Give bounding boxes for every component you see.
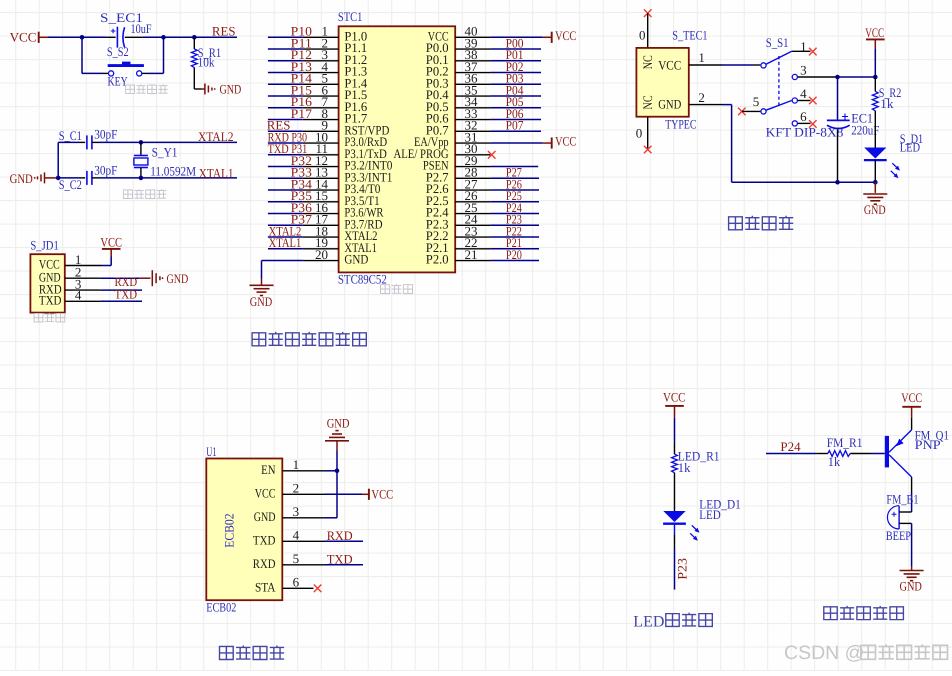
svg-text:VCC: VCC bbox=[901, 390, 922, 405]
svg-text:VCC: VCC bbox=[555, 28, 576, 43]
svg-text:20: 20 bbox=[315, 247, 328, 262]
svg-text:VCC: VCC bbox=[865, 25, 884, 40]
svg-text:VCC: VCC bbox=[10, 30, 37, 45]
svg-text:CSDN @: CSDN @ bbox=[784, 642, 864, 664]
svg-text:FM_R1: FM_R1 bbox=[827, 435, 863, 450]
svg-text:TXD: TXD bbox=[115, 287, 138, 302]
svg-text:ECB02: ECB02 bbox=[221, 513, 236, 547]
svg-text:GND: GND bbox=[10, 171, 33, 186]
svg-text:S_S2: S_S2 bbox=[107, 44, 129, 59]
svg-text:RES: RES bbox=[212, 23, 236, 38]
svg-text:1k: 1k bbox=[828, 454, 841, 469]
svg-text:NC: NC bbox=[640, 95, 655, 109]
svg-text:GND: GND bbox=[658, 97, 681, 112]
svg-text:4: 4 bbox=[800, 86, 807, 101]
svg-text:3: 3 bbox=[800, 63, 807, 78]
svg-text:1: 1 bbox=[800, 39, 807, 54]
svg-text:RXD: RXD bbox=[327, 528, 353, 543]
svg-text:TXD: TXD bbox=[39, 293, 62, 308]
svg-text:30pF: 30pF bbox=[94, 127, 117, 142]
svg-text:TXD: TXD bbox=[253, 533, 276, 548]
svg-text:5: 5 bbox=[753, 94, 760, 109]
svg-text:10k: 10k bbox=[198, 55, 215, 70]
svg-text:1k: 1k bbox=[880, 96, 894, 111]
svg-text:4: 4 bbox=[293, 528, 300, 543]
svg-text:S_S1: S_S1 bbox=[766, 35, 789, 50]
svg-text:FM_B1: FM_B1 bbox=[886, 492, 918, 507]
svg-text:3: 3 bbox=[293, 504, 300, 519]
svg-text:6: 6 bbox=[293, 575, 300, 590]
svg-text:ECB02: ECB02 bbox=[206, 599, 236, 614]
svg-text:30pF: 30pF bbox=[94, 162, 117, 177]
svg-text:BEEP: BEEP bbox=[886, 528, 911, 543]
svg-text:GND: GND bbox=[864, 202, 886, 217]
svg-text:PNP: PNP bbox=[915, 437, 941, 452]
svg-text:0: 0 bbox=[636, 125, 643, 140]
svg-text:XTAL1: XTAL1 bbox=[269, 235, 302, 250]
svg-text:2: 2 bbox=[698, 90, 705, 105]
svg-text:EN: EN bbox=[261, 462, 276, 477]
svg-text:P23: P23 bbox=[674, 558, 689, 580]
svg-text:LED: LED bbox=[900, 140, 920, 155]
svg-text:10uF: 10uF bbox=[131, 21, 152, 36]
svg-text:S_C1: S_C1 bbox=[59, 128, 82, 143]
svg-text:GND: GND bbox=[327, 416, 350, 431]
svg-text:S_JD1: S_JD1 bbox=[30, 237, 58, 252]
svg-text:KEY: KEY bbox=[108, 74, 129, 89]
svg-text:RXD: RXD bbox=[253, 556, 276, 571]
svg-text:1: 1 bbox=[698, 50, 705, 65]
svg-text:XTAL1: XTAL1 bbox=[199, 166, 234, 181]
svg-text:GND: GND bbox=[344, 252, 368, 267]
svg-text:5: 5 bbox=[293, 551, 300, 566]
svg-text:GND: GND bbox=[254, 509, 276, 524]
svg-text:0: 0 bbox=[639, 27, 646, 42]
svg-text:TXD: TXD bbox=[327, 552, 353, 567]
svg-text:VCC: VCC bbox=[658, 57, 681, 72]
svg-text:VCC: VCC bbox=[555, 134, 576, 149]
svg-text:1k: 1k bbox=[678, 460, 691, 475]
svg-text:GND: GND bbox=[167, 271, 189, 286]
svg-text:21: 21 bbox=[465, 247, 478, 262]
svg-text:6: 6 bbox=[800, 109, 807, 124]
svg-text:P2.0: P2.0 bbox=[426, 252, 449, 267]
svg-text:2: 2 bbox=[293, 481, 300, 496]
svg-text:STC89C52: STC89C52 bbox=[338, 271, 387, 286]
svg-text:P24: P24 bbox=[780, 439, 801, 454]
svg-text:VCC: VCC bbox=[371, 487, 393, 502]
svg-text:LED: LED bbox=[699, 507, 721, 522]
svg-text:U1: U1 bbox=[206, 444, 216, 459]
svg-text:GND: GND bbox=[900, 579, 922, 594]
svg-text:VCC: VCC bbox=[255, 486, 276, 501]
svg-text:P20: P20 bbox=[506, 247, 522, 262]
svg-text:STC1: STC1 bbox=[338, 9, 362, 24]
svg-text:P07: P07 bbox=[506, 118, 524, 133]
svg-text:VCC: VCC bbox=[663, 389, 685, 404]
svg-text:11.0592M: 11.0592M bbox=[150, 163, 196, 178]
svg-text:VCC: VCC bbox=[100, 234, 122, 249]
svg-text:P17: P17 bbox=[291, 106, 313, 121]
svg-text:TYPEC: TYPEC bbox=[665, 116, 696, 131]
svg-text:GND: GND bbox=[220, 82, 242, 97]
svg-text:GND: GND bbox=[250, 294, 272, 309]
svg-text:1: 1 bbox=[293, 457, 300, 472]
svg-text:S_TEC1: S_TEC1 bbox=[672, 28, 707, 43]
svg-text:LED: LED bbox=[633, 613, 664, 630]
svg-text:S_Y1: S_Y1 bbox=[152, 145, 178, 160]
svg-text:NC: NC bbox=[640, 55, 655, 69]
svg-text:S_C2: S_C2 bbox=[59, 177, 82, 192]
svg-text:STA: STA bbox=[255, 580, 276, 595]
svg-text:XTAL2: XTAL2 bbox=[198, 129, 234, 144]
